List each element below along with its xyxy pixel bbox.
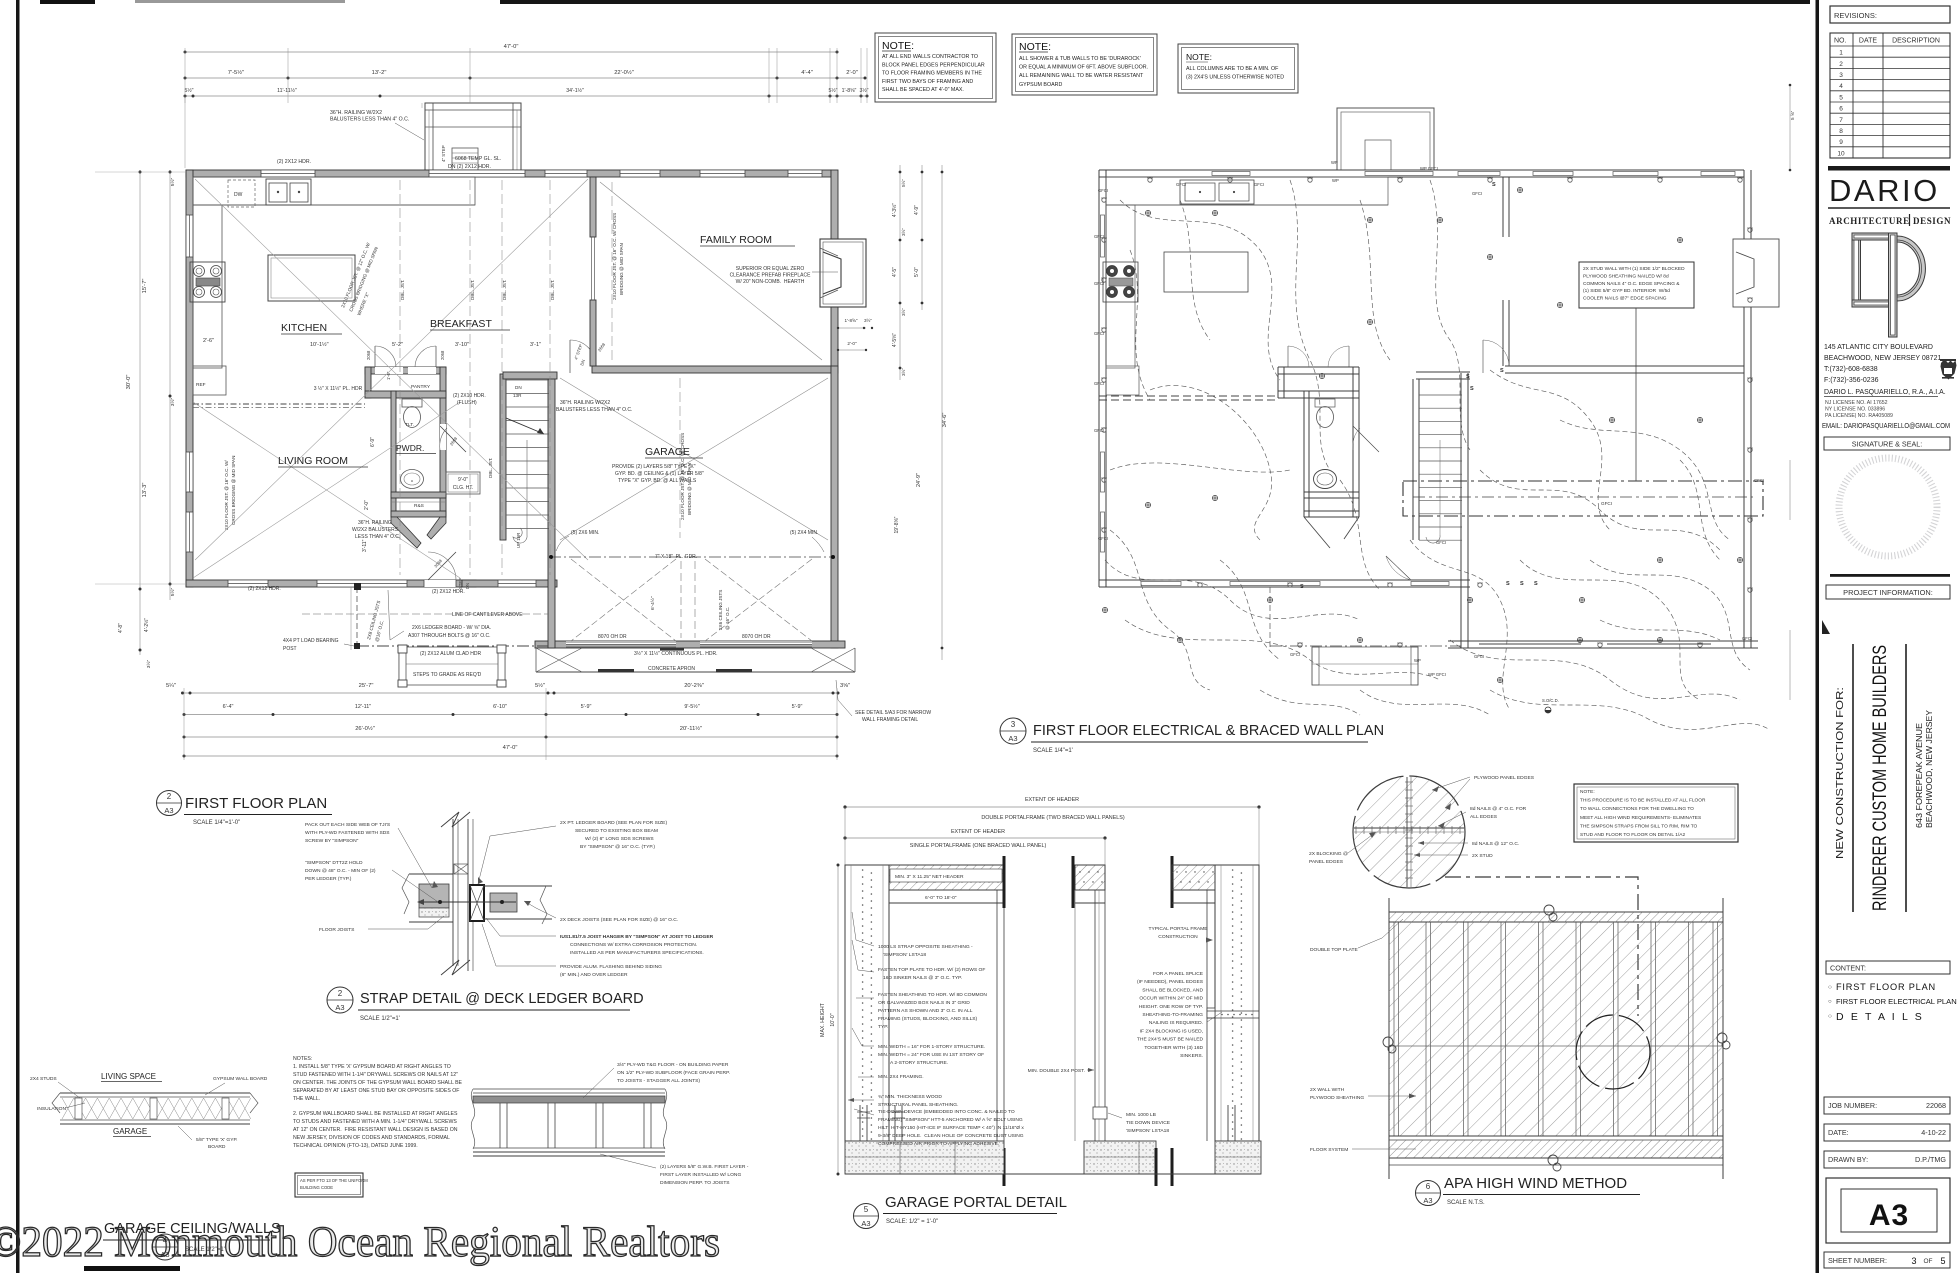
- living room X: [193, 402, 460, 578]
- elec breakfast/family wall: [1502, 177, 1504, 237]
- elec exterior walls: [1099, 169, 1744, 171]
- angled closet walls below: [391, 517, 421, 548]
- svg-text:2X4 STUDS: 2X4 STUDS: [30, 1076, 57, 1082]
- plywood sheathing hatch: [1389, 922, 1723, 1136]
- svg-text:5/8" TYPE 'X' GYP.: 5/8" TYPE 'X' GYP.: [196, 1137, 237, 1143]
- svg-text:19'-8⅝": 19'-8⅝": [894, 516, 900, 533]
- svg-text:GFCI: GFCI: [1098, 536, 1108, 541]
- grid bubbles: [1544, 905, 1554, 915]
- svg-text:5 ⅝": 5 ⅝": [1790, 110, 1795, 120]
- svg-text:2X6 LEDGER BOARD - W/ ⅝" DIA.: 2X6 LEDGER BOARD - W/ ⅝" DIA.: [412, 625, 491, 631]
- svg-text:(2) 2X12 HDR.: (2) 2X12 HDR.: [248, 586, 281, 592]
- svg-text:LIVING ROOM: LIVING ROOM: [278, 455, 348, 467]
- svg-text:DBL. JST.: DBL. JST.: [400, 280, 405, 300]
- svg-text:GFCI: GFCI: [1754, 478, 1764, 483]
- deck at top: [425, 103, 521, 170]
- svg-text:WP: WP: [1331, 160, 1338, 165]
- svg-text:SCALE N.T.S.: SCALE N.T.S.: [1447, 1200, 1485, 1206]
- svg-text:UP 15R: UP 15R: [516, 533, 521, 548]
- windows left wall: [186, 215, 193, 257]
- svg-text:FIRST LAYER INSTALLED W/ LONG: FIRST LAYER INSTALLED W/ LONG: [660, 1172, 741, 1178]
- floor assembly section detail: [471, 1062, 749, 1186]
- svg-text:PLYWOOD SHEATHING NAILED W/ 8d: PLYWOOD SHEATHING NAILED W/ 8d: [1583, 273, 1669, 279]
- note box 1: [875, 33, 996, 102]
- elec kitchen fixtures: [1106, 177, 1388, 205]
- svg-text:9-3/8" DEEP HOLE. CLEAN HOLE: 9-3/8" DEEP HOLE. CLEAN HOLE OF CONCRETE…: [878, 1133, 1024, 1139]
- svg-text:KITCHEN: KITCHEN: [281, 322, 327, 334]
- svg-text:7: 7: [1839, 117, 1843, 124]
- svg-text:A3: A3: [1008, 734, 1017, 743]
- svg-text:22068: 22068: [1926, 1101, 1946, 1110]
- svg-text:○: ○: [1828, 1013, 1832, 1020]
- svg-text:5: 5: [1839, 94, 1843, 101]
- svg-text:OF: OF: [1923, 1258, 1932, 1265]
- elec plan title: [1000, 718, 1026, 744]
- svg-text:RINDERER CUSTOM HOME BUILDERS: RINDERER CUSTOM HOME BUILDERS: [1870, 645, 1891, 911]
- svg-text:DESCRIPTION: DESCRIPTION: [1892, 38, 1940, 45]
- svg-text:4: 4: [1839, 83, 1843, 90]
- thick separator: [1828, 166, 1950, 171]
- svg-text:8070 OH DR: 8070 OH DR: [598, 634, 627, 640]
- svg-text:DOUBLE PORTALFRAME (TWO BRACED: DOUBLE PORTALFRAME (TWO BRACED WALL PANE…: [981, 815, 1125, 821]
- svg-text:36"H. RAILING: 36"H. RAILING: [358, 520, 392, 526]
- signature seal box: [1824, 437, 1950, 450]
- svg-text:S: S: [1470, 386, 1474, 392]
- svg-text:S: S: [1466, 374, 1470, 380]
- svg-text:FASTEN TOP PLATE TO HDR. W/ (2: FASTEN TOP PLATE TO HDR. W/ (2) ROWS OF: [878, 967, 985, 973]
- svg-text:7'-5½": 7'-5½": [228, 69, 244, 76]
- svg-text:8d NAILS @ 4" O.C. FOR: 8d NAILS @ 4" O.C. FOR: [1470, 806, 1527, 812]
- windows bottom wall: [228, 580, 268, 587]
- svg-text:145 ATLANTIC CITY BOULEVARD: 145 ATLANTIC CITY BOULEVARD: [1824, 344, 1933, 351]
- porch steps: [399, 647, 505, 685]
- main wall drawing: [1388, 898, 1390, 1179]
- svg-text:GFCI: GFCI: [1094, 281, 1104, 286]
- note box 3: [1178, 44, 1298, 93]
- svg-text:1: 1: [1839, 50, 1843, 57]
- svg-text:MIN. 3" X 11.25" NET HEADER: MIN. 3" X 11.25" NET HEADER: [895, 874, 964, 880]
- plan title: [157, 791, 182, 816]
- svg-text:47'-0": 47'-0": [504, 44, 519, 50]
- svg-text:PROJECT INFORMATION:: PROJECT INFORMATION:: [1843, 588, 1933, 597]
- svg-text:ALL SHOWER & TUB WALLS TO BE ': ALL SHOWER & TUB WALLS TO BE 'DURAROCK': [1019, 56, 1141, 62]
- svg-text:GFCI: GFCI: [1094, 331, 1104, 336]
- svg-text:8d NAILS @ 12" O.C.: 8d NAILS @ 12" O.C.: [1472, 841, 1519, 847]
- svg-text:2X10 FLOOR JST. @ 16" O.C. W/: 2X10 FLOOR JST. @ 16" O.C. W/ CROSS: [680, 433, 685, 520]
- svg-text:2. GYPSUM WALLBOARD SHALL BE I: 2. GYPSUM WALLBOARD SHALL BE INSTALLED A…: [293, 1111, 458, 1117]
- svg-text:DOWN @ 48" O.C. - MIN OF (2): DOWN @ 48" O.C. - MIN OF (2): [305, 868, 376, 874]
- svg-text:LESS THAN 4" O.C.: LESS THAN 4" O.C.: [355, 534, 400, 540]
- thick separator 2: [1830, 574, 1950, 577]
- svg-text:(2) 2X10 HDR.: (2) 2X10 HDR.: [453, 393, 486, 399]
- right portal frame: [1171, 856, 1174, 908]
- svg-text:BRIDGING @ MID SPAN: BRIDGING @ MID SPAN: [687, 463, 692, 515]
- svg-text:5'-2": 5'-2": [392, 342, 403, 348]
- svg-text:WP: WP: [1414, 658, 1421, 663]
- svg-text:3'-11": 3'-11": [362, 539, 368, 552]
- sheet border bottom-left stub: [84, 1266, 180, 1271]
- svg-text:APA HIGH WIND METHOD: APA HIGH WIND METHOD: [1444, 1175, 1627, 1192]
- svg-text:MIN. 1000 LB: MIN. 1000 LB: [1126, 1112, 1156, 1118]
- svg-text:WALL FRAMING DETAIL: WALL FRAMING DETAIL: [862, 717, 918, 723]
- svg-text:(1) SIDE 5/8" GYP BD. INTERIOR: (1) SIDE 5/8" GYP BD. INTERIOR W/5d: [1583, 288, 1670, 294]
- svg-text:643 FOREPEAK AVENUE: 643 FOREPEAK AVENUE: [1915, 722, 1924, 828]
- svg-text:JOB NUMBER:: JOB NUMBER:: [1828, 1101, 1877, 1110]
- svg-text:3½": 3½": [169, 398, 176, 407]
- svg-text:FIRST FLOOR PLAN: FIRST FLOOR PLAN: [185, 795, 327, 812]
- svg-text:'SIMPSON' LSTA18: 'SIMPSON' LSTA18: [883, 952, 926, 958]
- svg-text:POST: POST: [283, 646, 297, 652]
- joist direction X lines kitchen/breakfast: [195, 179, 588, 560]
- svg-text:BRIDGING @ MID SPAN: BRIDGING @ MID SPAN: [619, 243, 624, 295]
- sheet border top bar: [40, 0, 95, 4]
- svg-text:TLT.: TLT.: [405, 422, 414, 428]
- svg-text:9'-0": 9'-0": [458, 477, 468, 483]
- box beam block: [419, 884, 449, 908]
- svg-text:2X STUD: 2X STUD: [1472, 853, 1493, 859]
- svg-text:BUILDING CODE: BUILDING CODE: [300, 1185, 333, 1190]
- svg-text:GARAGE PORTAL DETAIL: GARAGE PORTAL DETAIL: [885, 1194, 1067, 1211]
- svg-text:BALUSTERS LESS THAN 4" O.C.: BALUSTERS LESS THAN 4" O.C.: [330, 117, 409, 123]
- svg-text:5'-9": 5'-9": [792, 704, 803, 710]
- svg-text:FOR A PANEL SPLICE: FOR A PANEL SPLICE: [1153, 971, 1204, 977]
- right frame blocking: [1207, 1008, 1215, 1018]
- left counter: [193, 205, 222, 368]
- svg-text:AT ALL END WALLS CONTRACTOR TO: AT ALL END WALLS CONTRACTOR TO: [882, 54, 978, 60]
- svg-text:TO STUDS AND FASTENED WITH A M: TO STUDS AND FASTENED WITH A MIN. 1-1/4"…: [293, 1119, 457, 1125]
- svg-text:5½": 5½": [169, 588, 176, 597]
- svg-text:©2022 Monmouth Ocean Regional: ©2022 Monmouth Ocean Regional Realtors: [0, 1219, 720, 1266]
- svg-text:THE 2X4'S MUST BE NAILED: THE 2X4'S MUST BE NAILED: [1137, 1037, 1204, 1043]
- studs: [1425, 922, 1427, 1136]
- svg-text:F:(732)-356-0236: F:(732)-356-0236: [1824, 377, 1879, 384]
- sheet border left line: [16, 0, 20, 1273]
- svg-text:DW: DW: [234, 192, 243, 198]
- svg-text:6'-9": 6'-9": [370, 437, 376, 447]
- svg-text:DARIO: DARIO: [1829, 173, 1940, 208]
- breakfast/family wall segments: [590, 177, 596, 237]
- svg-text:3: 3: [1839, 72, 1843, 79]
- svg-text:PLYWOOD PANEL EDGES: PLYWOOD PANEL EDGES: [1474, 775, 1535, 781]
- svg-text:SCALE 1/4"=1'-0": SCALE 1/4"=1'-0": [193, 820, 240, 826]
- svg-text:TECHNICAL OPINION (FTO-13), DA: TECHNICAL OPINION (FTO-13), DATED JUNE 1…: [293, 1143, 418, 1149]
- garage corner mark: [1822, 620, 1830, 634]
- range/stove: [190, 262, 225, 302]
- svg-text:A3: A3: [164, 806, 173, 815]
- svg-text:ARCHITECTURE: ARCHITECTURE: [1829, 216, 1910, 226]
- svg-text:SINKERS.: SINKERS.: [1180, 1053, 1203, 1059]
- svg-text:4'-5": 4'-5": [892, 267, 898, 277]
- svg-text:STUD FASTENED WITH 1-1/4" DRYW: STUD FASTENED WITH 1-1/4" DRYWALL SCREWS…: [293, 1072, 458, 1078]
- svg-text:6: 6: [1839, 106, 1843, 113]
- svg-text:4-10-22: 4-10-22: [1921, 1128, 1946, 1137]
- svg-text:OR GALVANIZED BOX NAILS IN 3": OR GALVANIZED BOX NAILS IN 3" GRID: [878, 1000, 970, 1006]
- svg-text:HILTI HIT-HY150 (HIT-ICE IF SU: HILTI HIT-HY150 (HIT-ICE IF SURFACE TEMP…: [878, 1125, 1024, 1131]
- svg-text:WP GFCI: WP GFCI: [1428, 672, 1446, 677]
- svg-text:2X10 FLOOR JST. @ 16" O.C. W/: 2X10 FLOOR JST. @ 16" O.C. W/ CROSS: [612, 213, 617, 300]
- svg-text:2X6 CEILING JSTS: 2X6 CEILING JSTS: [718, 590, 723, 630]
- svg-text:3½": 3½": [900, 228, 906, 236]
- svg-text:4'-5⅝": 4'-5⅝": [892, 333, 898, 347]
- svg-text:5: 5: [864, 1205, 869, 1214]
- svg-text:3⅝": 3⅝": [840, 683, 850, 689]
- svg-text:13'-3": 13'-3": [142, 483, 148, 498]
- svg-text:2X10 FLOOR JST. @ 16" O.C. W/: 2X10 FLOOR JST. @ 16" O.C. W/: [224, 460, 229, 530]
- svg-text:S: S: [1520, 581, 1524, 587]
- svg-text:CLG. HT.: CLG. HT.: [453, 485, 474, 491]
- concrete apron: [535, 648, 537, 672]
- floor band left: [409, 873, 453, 875]
- title block divider line: [1816, 0, 1820, 1273]
- svg-text:7" X 18" PL. GDR.: 7" X 18" PL. GDR.: [655, 554, 697, 560]
- svg-text:2X STUD WALL WITH (1) SIDE 1/2: 2X STUD WALL WITH (1) SIDE 1/2" BLOCKED: [1583, 266, 1685, 272]
- svg-text:¾" MIN. THICKNESS WOOD: ¾" MIN. THICKNESS WOOD: [878, 1094, 942, 1100]
- svg-text:SCALE 1/2"=1': SCALE 1/2"=1': [360, 1016, 400, 1022]
- svg-text:LINE OF CANTILEVER ABOVE: LINE OF CANTILEVER ABOVE: [452, 612, 523, 618]
- svg-text:NOTE:: NOTE:: [882, 40, 914, 52]
- apa note box: [1574, 784, 1738, 842]
- sliding glass door 6068: [429, 170, 525, 177]
- svg-text:FIRST TWO BAYS OF FRAMING AND: FIRST TWO BAYS OF FRAMING AND: [882, 79, 973, 85]
- left portal frame: [845, 865, 1004, 890]
- svg-text:24'-9": 24'-9": [916, 473, 922, 487]
- svg-text:PANEL EDGES: PANEL EDGES: [1309, 859, 1344, 865]
- mid panel joint: [1389, 1045, 1723, 1047]
- svg-text:36"H. RAILING W/2X2: 36"H. RAILING W/2X2: [330, 110, 382, 116]
- svg-text:D.P./TMG: D.P./TMG: [1915, 1155, 1946, 1164]
- svg-text:GFCI: GFCI: [1094, 428, 1104, 433]
- svg-text:GFCI: GFCI: [1094, 234, 1104, 239]
- svg-text:THIS PROCEDURE IS TO BE INSTAL: THIS PROCEDURE IS TO BE INSTALLED AT ALL…: [1580, 798, 1706, 804]
- svg-text:DBL. JST.: DBL. JST.: [502, 280, 507, 300]
- svg-text:STEPS TO GRADE AS REQ'D: STEPS TO GRADE AS REQ'D: [413, 672, 482, 678]
- garage diagonal: [560, 378, 828, 540]
- dimension rows top: [95, 44, 948, 760]
- elec window marks: [1212, 172, 1250, 176]
- svg-text:INSTALLED AS PER MANUFACTURERS: INSTALLED AS PER MANUFACTURERS SPECIFICA…: [570, 950, 704, 956]
- svg-text:NJ LICENSE NO. AI 17652: NJ LICENSE NO. AI 17652: [1825, 400, 1888, 406]
- svg-text:FAMILY ROOM: FAMILY ROOM: [700, 234, 772, 246]
- right side small dims elec: [1789, 85, 1791, 170]
- svg-text:9: 9: [1839, 139, 1843, 146]
- svg-text:STEP: STEP: [458, 578, 463, 589]
- portal ground shadow: [845, 1173, 1261, 1175]
- project information box: [1826, 585, 1950, 599]
- svg-text:9'-5½": 9'-5½": [684, 703, 699, 710]
- svg-text:○: ○: [1828, 984, 1832, 991]
- svg-text:BLOCK PANEL EDGES PERPENDICULA: BLOCK PANEL EDGES PERPENDICULAR: [882, 62, 985, 68]
- svg-text:PLYWOOD SHEATHING: PLYWOOD SHEATHING: [1310, 1095, 1364, 1101]
- svg-text:W/ 20" NON-COMB. HEARTH: W/ 20" NON-COMB. HEARTH: [736, 279, 805, 285]
- svg-text:D E T A I L S: D E T A I L S: [1836, 1011, 1924, 1023]
- svg-text:5½": 5½": [900, 179, 906, 187]
- svg-text:47'-0": 47'-0": [503, 745, 518, 751]
- svg-text:10'-1½": 10'-1½": [310, 341, 329, 348]
- svg-text:STRUCTURAL PANEL SHEATHING.: STRUCTURAL PANEL SHEATHING.: [878, 1102, 958, 1108]
- svg-text:PWDR.: PWDR.: [396, 443, 424, 453]
- svg-text:GFCI: GFCI: [1290, 652, 1300, 657]
- svg-text:8: 8: [1839, 128, 1843, 135]
- sheet number box: [1824, 1252, 1950, 1268]
- svg-text:6'-10": 6'-10": [493, 704, 507, 710]
- sheet id box A3: [1826, 1178, 1950, 1243]
- svg-text:ON CENTER. THE JOINTS OF THE G: ON CENTER. THE JOINTS OF THE GYPSUM WALL…: [293, 1080, 463, 1086]
- powder door opening & leaf: [440, 424, 446, 450]
- elec pantry doors arcs: [1287, 346, 1289, 367]
- revisions table: [1830, 33, 1950, 158]
- svg-text:TO WALL CONNECTIONS FOR THE DW: TO WALL CONNECTIONS FOR THE DWELLING TO: [1580, 806, 1694, 812]
- max height dim: [837, 865, 839, 1174]
- svg-text:22'-0½": 22'-0½": [614, 69, 634, 76]
- FTO box: [295, 1173, 363, 1197]
- elec garage doors: [1479, 643, 1581, 645]
- svg-text:GFCI: GFCI: [1094, 381, 1104, 386]
- svg-text:BALUSTERS LESS THAN 4" O.C.: BALUSTERS LESS THAN 4" O.C.: [556, 407, 632, 413]
- svg-text:MIN. WIDTH = 16" FOR 1-STORY S: MIN. WIDTH = 16" FOR 1-STORY STRUCTURE.: [878, 1044, 985, 1050]
- pantry / powder room walls: [365, 367, 446, 374]
- svg-text:13'-2": 13'-2": [372, 70, 387, 76]
- svg-text:FLOOR JOISTS: FLOOR JOISTS: [319, 927, 355, 933]
- svg-text:3 ½" X 11½" PL. HDR: 3 ½" X 11½" PL. HDR: [314, 385, 363, 392]
- svg-text:SCALE: 1/2" = 1'-0": SCALE: 1/2" = 1'-0": [886, 1219, 938, 1225]
- svg-text:FASTEN SHEATHING TO HDR. W/ 8D: FASTEN SHEATHING TO HDR. W/ 8D COMMON: [878, 992, 987, 998]
- svg-text:MIN. 2X4 FRAMING.: MIN. 2X4 FRAMING.: [878, 1074, 924, 1080]
- interior wall kitchen/living (header line): [193, 403, 365, 405]
- DP monogram logo: [1852, 233, 1925, 337]
- svg-text:2: 2: [1839, 61, 1843, 68]
- svg-text:PA LICENSE| NO. RA405089: PA LICENSE| NO. RA405089: [1825, 413, 1893, 419]
- svg-text:20'-11½": 20'-11½": [680, 725, 702, 732]
- garage door openings: [566, 643, 676, 645]
- svg-text:COMPRESSED AIR PRIOR TO APPLYI: COMPRESSED AIR PRIOR TO APPLYING ADHESIV…: [878, 1141, 999, 1147]
- elec deck: [1337, 108, 1434, 170]
- svg-text:COMMON NAILS 4" O.C. EDGE SPAC: COMMON NAILS 4" O.C. EDGE SPACING &: [1583, 281, 1680, 287]
- svg-text:SECURED TO EXISTING BOX BEAM: SECURED TO EXISTING BOX BEAM: [575, 828, 658, 834]
- svg-text:GFCI: GFCI: [1098, 188, 1108, 193]
- svg-text:11'-11½": 11'-11½": [277, 87, 297, 94]
- svg-text:MEET ALL HIGH WIND REQUIREMENT: MEET ALL HIGH WIND REQUIREMENTS- ELIMINA…: [1580, 815, 1701, 821]
- svg-text:LIVING SPACE: LIVING SPACE: [101, 1072, 156, 1081]
- svg-text:TIE DOWN DEVICE: TIE DOWN DEVICE: [1126, 1120, 1171, 1126]
- svg-text:2068: 2068: [366, 350, 371, 360]
- date box: [1824, 1124, 1950, 1141]
- svg-text:4'-4": 4'-4": [801, 70, 813, 76]
- client rule right: [1905, 644, 1907, 912]
- svg-text:13R: 13R: [513, 393, 522, 398]
- hall step + door at family room entry: [569, 340, 571, 373]
- svg-text:TYPICAL PORTAL FRAME: TYPICAL PORTAL FRAME: [1149, 926, 1209, 932]
- pwdr sink: [401, 470, 424, 489]
- toilet: [402, 399, 422, 407]
- cantilever porch below: [356, 587, 358, 650]
- callout circle detail: [1353, 776, 1465, 888]
- svg-text:(2) 2X12 ALUM CLAD HDR: (2) 2X12 ALUM CLAD HDR: [420, 651, 482, 657]
- svg-text:SINGLE PORTALFRAME (ONE BRACED: SINGLE PORTALFRAME (ONE BRACED WALL PANE…: [910, 843, 1047, 849]
- blocking square: [454, 864, 468, 874]
- svg-text:A3: A3: [335, 1003, 344, 1012]
- kitchen island: [268, 255, 355, 301]
- svg-text:THE WALL.: THE WALL.: [293, 1096, 320, 1102]
- svg-text:SUPERIOR OR EQUAL ZERO: SUPERIOR OR EQUAL ZERO: [736, 266, 805, 272]
- svg-text:GYPSUM WALL BOARD: GYPSUM WALL BOARD: [213, 1076, 268, 1082]
- apa title: [1416, 1181, 1441, 1206]
- svg-text:IF 2X4 BLOCKING IS USED,: IF 2X4 BLOCKING IS USED,: [1140, 1028, 1203, 1034]
- elec kitchen/living dashed divider: [1099, 395, 1278, 397]
- svg-text:SCREW BY "SIMPSON": SCREW BY "SIMPSON": [305, 838, 359, 844]
- svg-text:(2) 2X12 HDR.: (2) 2X12 HDR.: [277, 159, 311, 165]
- svg-text:2'-6": 2'-6": [203, 338, 214, 344]
- svg-text:REVISIONS:: REVISIONS:: [1834, 11, 1877, 20]
- svg-text:NOTE:: NOTE:: [1186, 52, 1212, 62]
- garage bay X dashed: [571, 559, 676, 641]
- svg-text:STUD AND FLOOR TO FLOOR ON DET: STUD AND FLOOR TO FLOOR ON DETAIL 1/A2: [1580, 832, 1685, 838]
- svg-text:NEW JERSEY, DIVISION OF CODES: NEW JERSEY, DIVISION OF CODES AND STANDA…: [293, 1135, 450, 1141]
- svg-text:3½": 3½": [900, 308, 906, 316]
- right frame anchor bolts: [1228, 1105, 1235, 1141]
- svg-text:15'-7": 15'-7": [142, 279, 148, 294]
- svg-text:10'-0": 10'-0": [830, 1013, 836, 1026]
- svg-text:CONNECTIONS W/ EXTRA CORROSION: CONNECTIONS W/ EXTRA CORROSION PROTECTIO…: [570, 942, 697, 948]
- svg-text:(6" MIN.) AND OVER LEDGER: (6" MIN.) AND OVER LEDGER: [560, 972, 628, 978]
- svg-text:S: S: [1534, 581, 1538, 587]
- content box: [1826, 961, 1950, 974]
- svg-text:TIE-DOWN DEVICE (EMBEDDED INTO: TIE-DOWN DEVICE (EMBEDDED INTO CONC. & N…: [878, 1109, 1015, 1115]
- refrigerator: [193, 366, 226, 395]
- svg-text:5: 5: [1940, 1256, 1945, 1266]
- svg-text:MIN. WIDTH = 24" FOR USE IN 1S: MIN. WIDTH = 24" FOR USE IN 1ST STORY OF: [878, 1052, 984, 1058]
- drawn by box: [1824, 1151, 1950, 1168]
- middle single portal column: [1072, 856, 1075, 908]
- svg-text:3½" X 11½" CONTINUOUS PL. HDR.: 3½" X 11½" CONTINUOUS PL. HDR.: [634, 650, 717, 657]
- svg-text:GFCI: GFCI: [1474, 654, 1484, 659]
- svg-text:(2) LAYERS 5/8" G.W.B. FIRST L: (2) LAYERS 5/8" G.W.B. FIRST LAYER -: [660, 1164, 749, 1170]
- svg-text:16D SINKER NAILS @ 3" O.C. TYP: 16D SINKER NAILS @ 3" O.C. TYP.: [883, 975, 962, 981]
- svg-text:STRAP DETAIL @ DECK LEDGER BOA: STRAP DETAIL @ DECK LEDGER BOARD: [360, 991, 644, 1007]
- svg-text:10: 10: [1837, 150, 1845, 157]
- svg-text:CLEARANCE PREFAB FIREPLACE: CLEARANCE PREFAB FIREPLACE: [730, 273, 812, 279]
- svg-text:FIRST FLOOR PLAN: FIRST FLOOR PLAN: [1836, 982, 1936, 992]
- svg-text:6'-4": 6'-4": [223, 704, 234, 710]
- svg-text:FRAMING) "SIMPSON" HTT-5 ANCHO: FRAMING) "SIMPSON" HTT-5 ANCHORED W/ A ⅝…: [878, 1117, 1023, 1123]
- svg-text:NOTES:: NOTES:: [293, 1056, 312, 1062]
- svg-text:CROSS BRIDGING @ MID SPAN: CROSS BRIDGING @ MID SPAN: [231, 456, 236, 525]
- ledger board: [470, 885, 484, 921]
- ceiling outlets/lights: [1145, 210, 1151, 216]
- svg-text:IUS1.81/7.5 JOIST HANGER BY "S: IUS1.81/7.5 JOIST HANGER BY "SIMPSON" AT…: [560, 934, 714, 940]
- svg-text:SHEET NUMBER:: SHEET NUMBER:: [1828, 1256, 1887, 1265]
- svg-text:2X PT. LEDGER BOARD (SEE PLAN: 2X PT. LEDGER BOARD (SEE PLAN FOR SIZE): [560, 820, 667, 826]
- svg-text:TO JOISTS - STAGGER ALL JOINTS: TO JOISTS - STAGGER ALL JOINTS): [617, 1078, 700, 1084]
- svg-text:A307 THROUGH BOLTS @ 16" O.C.: A307 THROUGH BOLTS @ 16" O.C.: [408, 633, 491, 639]
- svg-text:WP: WP: [1332, 178, 1339, 183]
- svg-text:4'-8": 4'-8": [118, 623, 124, 633]
- svg-text:A3: A3: [861, 1219, 870, 1228]
- svg-text:A 2-STORY STRUCTURE.: A 2-STORY STRUCTURE.: [890, 1060, 948, 1066]
- svg-text:FLOOR SYSTEM: FLOOR SYSTEM: [1310, 1147, 1348, 1153]
- elec interior walls pantry/powder: [1278, 366, 1359, 368]
- svg-text:3½": 3½": [145, 660, 152, 669]
- note box 2: [1012, 34, 1157, 95]
- svg-text:AS PER FTO 13 OF THE UNIFORM: AS PER FTO 13 OF THE UNIFORM: [300, 1178, 368, 1183]
- svg-text:SHEATHING-TO-FRAMING: SHEATHING-TO-FRAMING: [1142, 1012, 1203, 1018]
- svg-text:1'-8⅝": 1'-8⅝": [845, 318, 858, 323]
- svg-text:EXTENT OF HEADER: EXTENT OF HEADER: [951, 829, 1005, 835]
- living room door 3068: [428, 552, 456, 580]
- double top plate: [1389, 911, 1723, 913]
- svg-text:CONCRETE APRON: CONCRETE APRON: [648, 666, 695, 672]
- svg-text:3'-10": 3'-10": [455, 342, 469, 348]
- svg-text:TOGETHER WITH (3) 16D: TOGETHER WITH (3) 16D: [1144, 1045, 1203, 1051]
